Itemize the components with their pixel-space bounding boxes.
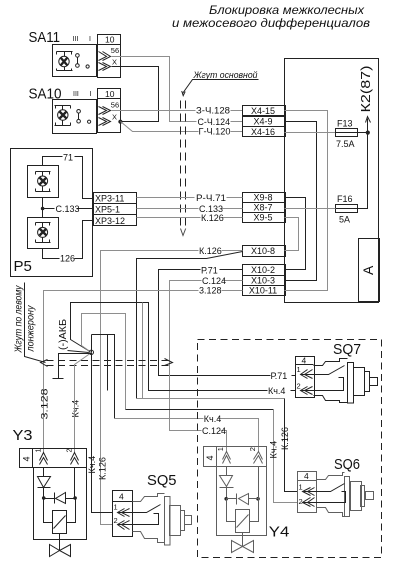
svg-text:Р-Ч.71: Р-Ч.71 — [196, 193, 226, 203]
wire XP3-12 to X9-5 (К.126) — [137, 217, 243, 219]
P5 lamp 2 box — [28, 218, 59, 249]
svg-text:F16: F16 — [337, 194, 353, 204]
P5 lamp 2 — [36, 223, 51, 243]
svg-text:10: 10 — [105, 35, 115, 45]
svg-text:X10-3: X10-3 — [251, 275, 275, 285]
internal wire X4-9 to X10-3 — [285, 122, 317, 281]
dashed enclosure box (middle axle group) — [198, 340, 382, 558]
wire XP5-1 to X8-7 (С.133) — [137, 208, 243, 210]
SQ6 connector box — [298, 472, 317, 513]
svg-text:SQ7: SQ7 — [333, 341, 361, 358]
ground wire to SQ7 pin2 (Кч.4) — [71, 303, 296, 391]
Y4 pin2 chevron — [254, 452, 263, 464]
ground wire to Y4 pin2 (Кч.4) — [92, 335, 115, 419]
harness end V arrow — [181, 229, 186, 236]
svg-text:3.128: 3.128 — [199, 286, 222, 296]
svg-text:С.124: С.124 — [202, 276, 226, 286]
Y4 strip 4 box divider — [216, 447, 218, 467]
svg-text:1: 1 — [299, 483, 303, 492]
svg-text:А: А — [360, 265, 376, 275]
SQ5 pin2 chevron — [118, 521, 130, 530]
wire X10-2 to SQ7 pin1 (Р.71) — [159, 270, 296, 376]
wire SA10.X to X4-16 (Г-Ч.120) — [121, 122, 243, 132]
svg-text:X10-8: X10-8 — [251, 246, 275, 256]
svg-text:4: 4 — [302, 355, 307, 365]
leader line for Жгут основной — [183, 80, 259, 94]
svg-text:К.126: К.126 — [280, 427, 290, 450]
SQ6 flange — [345, 477, 350, 517]
svg-text:Г-Ч.120: Г-Ч.120 — [199, 127, 231, 137]
SQ7 connector box — [296, 357, 315, 398]
internal wire X9-8 to X10-2 — [285, 198, 306, 270]
svg-text:7.5A: 7.5A — [336, 139, 355, 149]
SA11 connector pin 10 header — [98, 44, 121, 46]
svg-text:2: 2 — [297, 382, 301, 391]
svg-text:5A: 5A — [339, 215, 350, 225]
connector XP3-12 — [94, 215, 137, 226]
ground stub T at 107.8 — [107, 335, 109, 391]
SA10 switch contacts — [77, 110, 91, 124]
svg-text:X10-2: X10-2 — [251, 265, 275, 275]
K2(87) arrowhead up — [366, 117, 371, 123]
svg-text:III: III — [73, 91, 79, 98]
svg-text:С.133: С.133 — [56, 204, 80, 214]
Y4 connector strip — [204, 447, 267, 467]
connector X10-2 — [243, 265, 286, 276]
svg-text:4: 4 — [304, 471, 309, 481]
wire К.126 X10-8 to SQ5 pin2 — [101, 251, 243, 525]
SQ7 pin2 chevron — [301, 387, 313, 395]
SQ6 stem — [366, 492, 374, 500]
Y4 solenoid coil — [227, 499, 259, 533]
SQ7 stem — [370, 378, 378, 386]
connector X4-16 — [243, 127, 286, 137]
wire SA11.X to SA10.X — [112, 67, 159, 122]
svg-text:X4-9: X4-9 — [253, 116, 272, 126]
wire F16 to X8-7 — [285, 208, 336, 210]
SA10 connector pin 10 header — [98, 98, 121, 100]
P5 wire С.133 — [43, 208, 94, 210]
internal wire X9-5 to X10-8 — [285, 218, 299, 251]
svg-text:4: 4 — [119, 492, 124, 502]
svg-text:1: 1 — [114, 503, 118, 512]
SQ5 stem — [185, 516, 192, 525]
SQ5 internal contacts — [118, 505, 161, 525]
SQ7 flange — [348, 363, 354, 404]
SA11 pin X chevron — [99, 63, 111, 71]
svg-text:XP5-1: XP5-1 — [95, 205, 120, 215]
Y3 diode1 vertical — [38, 468, 51, 499]
SA10 pin 56 chevron — [99, 107, 111, 115]
SQ6 pin2 chevron — [303, 498, 315, 507]
P5 lamp 1 — [36, 172, 51, 192]
Y4 diode1 vertical — [220, 467, 234, 499]
wire X10-8 lower entry to SQ6 pin1 — [137, 252, 243, 399]
svg-text:Кч.4: Кч.4 — [268, 441, 278, 459]
svg-text:XP3-12: XP3-12 — [95, 216, 125, 226]
svg-text:Р.71: Р.71 — [201, 265, 218, 275]
svg-text:SQ6: SQ6 — [334, 456, 360, 473]
wire SA11.56 to X4-9 (С-Ч.124) — [112, 57, 243, 122]
Y3 junction dots — [42, 496, 46, 500]
Y3 wire pin2 down — [74, 468, 76, 499]
ground junction node — [89, 350, 93, 354]
svg-text:2: 2 — [299, 497, 303, 506]
svg-text:1: 1 — [34, 448, 43, 452]
wire X4-16 to fuse F13 — [285, 132, 336, 134]
SQ6 cylinder — [351, 482, 362, 511]
SQ5 header divider — [113, 501, 133, 503]
SQ5 cap — [181, 511, 185, 531]
relay block A — [359, 239, 380, 302]
svg-text:X: X — [112, 113, 117, 122]
svg-text:X4-15: X4-15 — [251, 106, 275, 116]
svg-text:56: 56 — [111, 101, 119, 110]
svg-text:3.128: 3.128 — [40, 389, 50, 420]
svg-text:XP3-11: XP3-11 — [95, 194, 124, 204]
connector X4-9 — [243, 117, 286, 127]
SQ7 pin1 chevron — [301, 370, 313, 379]
connector X9-8 — [243, 193, 286, 203]
Y4 body box — [217, 467, 267, 536]
svg-text:X9-8: X9-8 — [253, 192, 272, 202]
Y3 connector strip — [20, 449, 87, 468]
SQ5 pin1 chevron — [118, 509, 130, 517]
svg-text:Y4: Y4 — [269, 524, 290, 541]
svg-text:Y3: Y3 — [13, 427, 33, 444]
P5 wire 71 — [43, 157, 94, 199]
svg-text:К.126: К.126 — [97, 457, 107, 480]
fuse F16 — [336, 194, 359, 225]
Y3 valve symbol — [50, 534, 71, 557]
wire junction to Y3 pin2 — [75, 353, 92, 454]
svg-text:С.124: С.124 — [202, 426, 226, 436]
SA11 connector box — [98, 35, 121, 78]
SQ7 switch body — [314, 359, 348, 403]
junction dot SA10.X — [119, 120, 122, 123]
internal wire X4-15 to X10-11 — [285, 111, 328, 291]
svg-text:2: 2 — [114, 516, 118, 525]
SA11 switch contacts — [76, 54, 90, 68]
svg-text:X9-5: X9-5 — [253, 213, 272, 223]
svg-text:SQ5: SQ5 — [147, 472, 177, 489]
svg-text:Р.71: Р.71 — [271, 371, 288, 381]
SQ6 switch body — [317, 473, 345, 517]
svg-text:Кч.4: Кч.4 — [268, 386, 285, 396]
svg-text:X4-16: X4-16 — [251, 127, 275, 137]
svg-text:F13: F13 — [337, 119, 353, 129]
SA10 lamp — [55, 106, 71, 126]
SQ6 cap — [361, 486, 365, 507]
svg-text:и межосевого дифференциалов: и межосевого дифференциалов — [172, 18, 370, 30]
connector XP5-1 — [94, 204, 137, 215]
svg-text:лонжерону: лонжерону — [26, 305, 37, 353]
left harness right arrowhead — [165, 359, 173, 366]
ground wire to SQ6 pin2 (Кч.4) — [82, 314, 126, 410]
connector X8-7 — [243, 203, 286, 213]
svg-text:10: 10 — [105, 89, 115, 99]
P5 lamp 1 box — [28, 166, 59, 198]
SQ6 internal contacts — [303, 484, 346, 503]
SQ6 header divider — [298, 480, 317, 482]
wire SA10.56 to X4-15 (З-Ч.128) — [112, 110, 243, 112]
Y4 diode2 horizontal — [227, 494, 259, 505]
P5 wire lamp1-lamp2 — [42, 198, 44, 218]
Y4 valve symbol — [232, 533, 254, 553]
SQ6 pin1 chevron — [303, 488, 315, 496]
central unit box — [285, 59, 379, 303]
svg-text:С-Ч.124: С-Ч.124 — [198, 117, 231, 127]
switch SA10 body box — [53, 100, 97, 134]
svg-text:Жгут по левому: Жгут по левому — [14, 285, 25, 354]
SQ7 internal contacts — [301, 366, 345, 391]
node K2(87) wire with junction — [359, 119, 368, 209]
SQ7 header divider — [296, 364, 314, 366]
leader (-)АКБ — [68, 351, 89, 353]
svg-text:Блокировка межколесных: Блокировка межколесных — [209, 5, 365, 17]
SA10 pin X chevron — [99, 118, 111, 126]
main harness double dashed line — [180, 101, 182, 227]
svg-text:4: 4 — [205, 455, 215, 460]
SQ7 cylinder — [354, 368, 365, 396]
connector X10-11 — [243, 286, 286, 296]
svg-text:К2(87): К2(87) — [358, 66, 373, 113]
ground junction vertical to SQ5 pin1 — [92, 335, 113, 513]
SA11 pin 56 chevron — [99, 52, 111, 61]
Y3 strip 4 box divider — [32, 449, 34, 468]
Y4 pin1 chevron — [223, 452, 231, 464]
wire XP3-11 to X9-8 (Р-Ч.71) — [137, 197, 243, 199]
SQ7 cap — [365, 372, 370, 392]
connector X10-3 — [243, 276, 286, 286]
svg-text:Кч.4: Кч.4 — [204, 414, 221, 424]
left harness dashed oval — [47, 360, 169, 362]
fuse F13 — [336, 119, 359, 150]
connector X10-8 — [243, 246, 286, 257]
connector X9-5 — [243, 213, 286, 223]
Y4 junction dots — [224, 497, 228, 501]
SQ5 flange — [165, 497, 171, 546]
SA10 connector box — [98, 89, 121, 133]
svg-text:(-)АКБ: (-)АКБ — [58, 319, 69, 350]
P5 wire 126 — [43, 221, 94, 259]
svg-text:4: 4 — [22, 456, 32, 461]
wire X10-3 to Y4 pin1 (С.124) — [170, 281, 243, 453]
lamp unit P5 box — [11, 149, 93, 277]
svg-text:К.126: К.126 — [199, 246, 222, 256]
svg-text:SA11: SA11 — [29, 29, 61, 46]
svg-text:126: 126 — [60, 254, 75, 264]
svg-text:З-Ч.128: З-Ч.128 — [196, 106, 230, 116]
connector X4-15 — [243, 106, 286, 116]
SQ5 cylinder — [170, 506, 181, 536]
svg-text:2: 2 — [248, 447, 257, 451]
SA11 lamp — [57, 52, 73, 71]
svg-text:2: 2 — [65, 448, 74, 452]
svg-text:56: 56 — [111, 46, 119, 55]
underline for rotated harness label — [25, 283, 46, 363]
svg-text:1: 1 — [297, 365, 301, 374]
left harness left arrowhead — [41, 360, 48, 367]
wire X10-11 to Y3 pin1 (3.128) — [44, 291, 243, 454]
svg-text:X10-11: X10-11 — [249, 286, 277, 296]
battery minus terminal wire — [53, 354, 92, 379]
SQ5 connector box — [113, 491, 133, 537]
Y4 wire pin2 down — [258, 467, 260, 499]
svg-text:I: I — [90, 91, 92, 98]
svg-text:Кч.4: Кч.4 — [70, 400, 80, 418]
switch SA11 body box — [53, 45, 97, 77]
svg-text:X8-7: X8-7 — [253, 203, 272, 213]
junction dot C.133 — [41, 207, 45, 211]
svg-text:71: 71 — [63, 152, 73, 162]
SQ5 switch body — [133, 494, 165, 543]
svg-text:P5: P5 — [14, 258, 32, 275]
svg-text:I: I — [89, 36, 91, 43]
Y3 pin2 chevron — [71, 453, 79, 465]
svg-text:X: X — [112, 58, 117, 67]
Y3 diode2 horizontal — [44, 493, 76, 504]
svg-text:К.126: К.126 — [201, 213, 224, 223]
leader arrowhead — [182, 91, 186, 96]
connector XP3-11 — [94, 193, 137, 204]
ground stub T at 142.5 — [142, 303, 144, 399]
svg-text:III: III — [73, 36, 79, 43]
Y3 body box — [34, 468, 87, 540]
Y3 pin1 chevron — [40, 453, 48, 465]
svg-text:1: 1 — [216, 447, 225, 451]
Y3 solenoid coil — [44, 499, 76, 534]
